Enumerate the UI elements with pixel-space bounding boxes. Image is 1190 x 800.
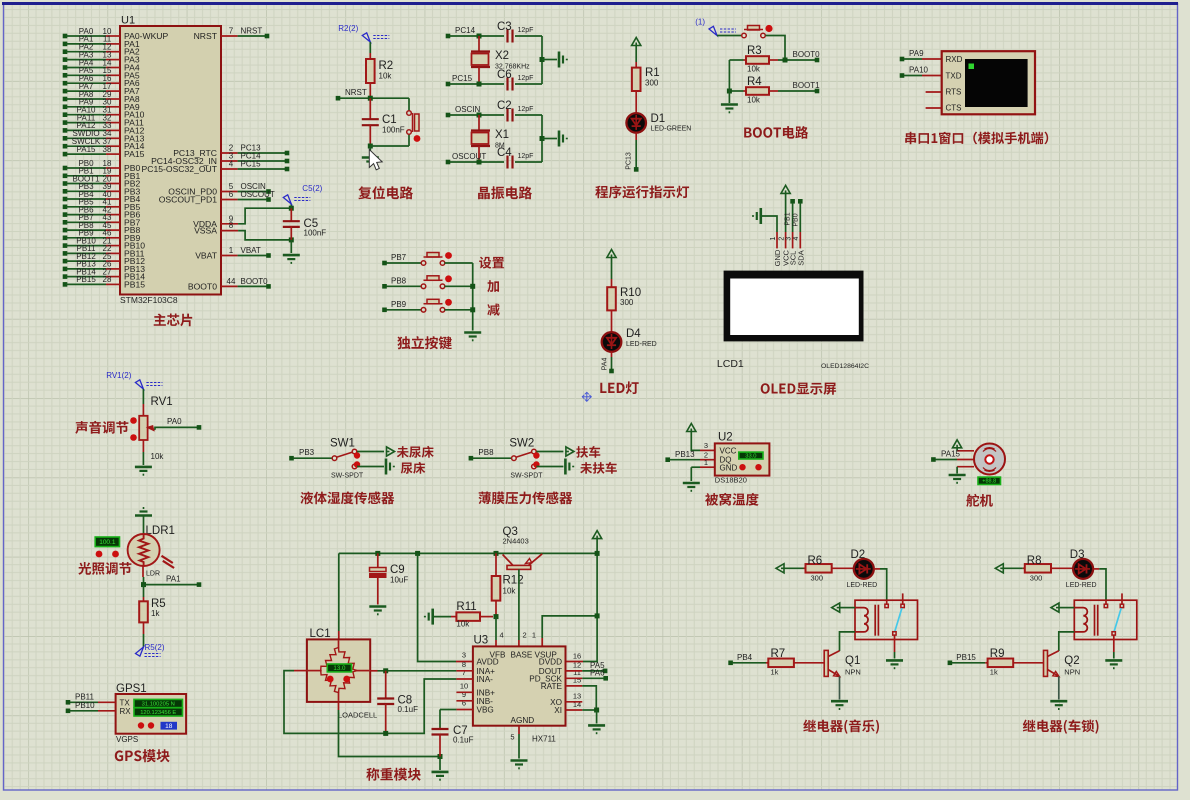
node PA9 — [900, 57, 905, 62]
wire DOUT to PA5 — [566, 670, 583, 672]
svg-text:R6: R6 — [808, 555, 823, 567]
coil bottom to transistor — [1059, 632, 1075, 651]
svg-text:SDA: SDA — [796, 250, 805, 265]
svg-text:PA9: PA9 — [909, 49, 924, 58]
node PB9 — [382, 308, 387, 313]
caption 继电器(车锁) — [1023, 720, 1099, 734]
svg-text:RV1: RV1 — [151, 396, 173, 408]
svg-text:300: 300 — [811, 574, 824, 583]
svg-text:PB8: PB8 — [391, 276, 407, 285]
node PA6 pin 16 — [63, 81, 68, 86]
svg-text:LCD1: LCD1 — [717, 358, 744, 370]
svg-text:RXD: RXD — [946, 55, 963, 64]
resistor R2 10k — [369, 53, 371, 59]
capacitor C5 100nF — [289, 206, 294, 211]
LC1 display — [327, 664, 351, 672]
svg-text:D4: D4 — [626, 328, 641, 340]
caption 主芯片 — [154, 314, 193, 327]
svg-text:10k: 10k — [456, 620, 470, 629]
caption 舵机 — [966, 494, 993, 507]
svg-text:1k: 1k — [990, 668, 998, 677]
wire left bus — [728, 60, 730, 103]
wire button to BOOT0 — [766, 36, 786, 61]
svg-text:5: 5 — [510, 733, 514, 742]
push button BOOT — [717, 35, 741, 37]
svg-text:9: 9 — [462, 690, 466, 699]
svg-text:PB3: PB3 — [299, 448, 315, 457]
ground (right) — [565, 459, 573, 475]
caption 声音调节 — [75, 421, 128, 434]
svg-text:LC1: LC1 — [310, 628, 331, 640]
wire PA1 — [142, 566, 144, 578]
svg-text:R8: R8 — [1027, 555, 1042, 567]
probe R2(2) — [362, 33, 370, 42]
ground — [369, 607, 386, 615]
wire rail down to LC1 — [338, 553, 340, 631]
node PB14 pin 27 — [63, 274, 68, 279]
svg-text:INA-: INA- — [477, 675, 494, 684]
node PB10 pin 21 — [63, 243, 68, 248]
servo display — [978, 477, 1001, 484]
LED D3 LED-RED — [1073, 559, 1093, 579]
power terminal — [632, 38, 641, 46]
pin CTS stub — [926, 107, 942, 109]
ground — [588, 725, 605, 733]
svg-text:PC13: PC13 — [626, 152, 633, 170]
svg-text:3: 3 — [785, 237, 792, 241]
svg-text:VBAT: VBAT — [241, 246, 261, 255]
node PA15 — [931, 457, 936, 462]
svg-text:Q2: Q2 — [1064, 655, 1079, 667]
resistor R5 1k — [143, 585, 145, 597]
power terminal — [781, 185, 790, 193]
node PA10 — [900, 73, 905, 78]
svg-text:12pF: 12pF — [518, 75, 534, 82]
node PB4 pin 40 — [63, 197, 68, 202]
resistor R1 300 — [635, 62, 637, 68]
switch SW1 SW-SPDT — [294, 457, 333, 459]
push button PB7 — [387, 262, 422, 264]
svg-text:1k: 1k — [151, 609, 160, 618]
power terminal + supply vertical — [593, 531, 602, 539]
node PB6 pin 42 — [63, 212, 68, 217]
node VBAT pin 1 — [221, 255, 238, 257]
svg-text:RV1(2): RV1(2) — [106, 371, 132, 380]
caption LED灯 — [600, 381, 638, 394]
ground — [511, 761, 528, 769]
node NRST — [336, 96, 341, 101]
wire to bus — [445, 285, 473, 287]
svg-text:R4: R4 — [747, 76, 762, 88]
node PB3 pin 39 — [63, 189, 68, 194]
svg-text:NPN: NPN — [1064, 668, 1080, 677]
svg-text:38: 38 — [103, 145, 112, 154]
svg-text:R2: R2 — [379, 60, 394, 72]
svg-text:LED-RED: LED-RED — [626, 341, 657, 348]
node PB7 pin 43 — [63, 220, 68, 225]
wire emitter to ground — [839, 676, 841, 699]
svg-text:R5(2): R5(2) — [145, 643, 165, 652]
svg-text:2: 2 — [778, 237, 785, 241]
origin marker — [582, 392, 591, 401]
svg-text:7: 7 — [229, 27, 234, 36]
svg-text:C1: C1 — [382, 114, 397, 126]
node PA0 — [197, 425, 202, 430]
svg-text:VCC: VCC — [720, 447, 737, 456]
wire LC1 bottom pin — [338, 702, 340, 710]
wire contact to ground — [1113, 635, 1115, 652]
node BOOT0 pin 44 — [221, 285, 238, 287]
svg-text:DVDD: DVDD — [539, 658, 562, 667]
svg-text:R3: R3 — [747, 45, 762, 57]
ground — [683, 483, 700, 491]
node PB1 pin 19 — [63, 174, 68, 179]
node PA9 pin 30 — [63, 105, 68, 110]
svg-text:2: 2 — [523, 631, 527, 640]
buttons — [96, 551, 103, 558]
LDR display — [95, 537, 119, 547]
node OSCIN — [446, 113, 451, 118]
wire throw1 to power — [357, 451, 384, 453]
wire XI to ground — [566, 709, 583, 711]
wire VDDA to C5 — [238, 208, 291, 224]
node PC14 — [446, 34, 451, 39]
wire throw2 to ground — [357, 466, 384, 468]
svg-text:BOOT0: BOOT0 — [241, 277, 269, 286]
svg-text:15: 15 — [573, 676, 581, 685]
ground — [949, 475, 966, 483]
svg-text:3: 3 — [462, 651, 466, 660]
node PA11 pin 32 — [63, 120, 68, 125]
ground — [831, 701, 848, 709]
svg-text:1k: 1k — [771, 668, 779, 677]
wire VCC pin — [785, 193, 787, 232]
wire bottom pin — [957, 466, 974, 468]
caption 扶车 — [576, 446, 600, 458]
svg-text:PB1: PB1 — [785, 212, 792, 225]
svg-text:VGPS: VGPS — [116, 735, 138, 744]
wire — [635, 46, 637, 63]
svg-text:VBAT: VBAT — [195, 251, 218, 261]
node PC13 pin 2 — [221, 152, 238, 154]
svg-text:D2: D2 — [851, 549, 866, 561]
node OSCOUT — [446, 160, 451, 165]
wire — [142, 389, 144, 404]
svg-text:VSSA: VSSA — [194, 226, 217, 236]
svg-text:PB15: PB15 — [956, 653, 976, 662]
svg-text:1: 1 — [770, 237, 777, 241]
svg-text:LED-GREEN: LED-GREEN — [651, 126, 692, 133]
node PB8 — [469, 456, 474, 461]
node SWDIO pin 34 — [63, 136, 68, 141]
resistor R10 300 — [611, 279, 613, 287]
caption 薄膜压力传感器 — [479, 492, 573, 505]
node PA10 pin 31 — [63, 112, 68, 117]
svg-text:U3: U3 — [474, 635, 489, 647]
svg-text:X1: X1 — [495, 129, 509, 141]
svg-text:PA10: PA10 — [909, 66, 929, 75]
wire R4 to BOOT1 — [778, 90, 816, 92]
wire PA4 — [611, 352, 613, 358]
svg-text:(1): (1) — [695, 18, 705, 27]
svg-text:300: 300 — [645, 79, 659, 88]
wire NRST net — [340, 97, 409, 99]
svg-text:U2: U2 — [718, 432, 733, 444]
wire C5 to ground — [290, 240, 292, 253]
node NRST pin 7 — [221, 35, 238, 37]
svg-text:BOOT1: BOOT1 — [793, 81, 821, 90]
push button PB8 — [387, 285, 422, 287]
node VSSA pin 8 — [221, 230, 238, 232]
svg-text:INB-: INB- — [477, 697, 494, 706]
ground — [559, 52, 567, 68]
svg-text:PA0: PA0 — [167, 417, 182, 426]
relay RL1 — [855, 600, 918, 639]
node PA3 pin 13 — [63, 57, 68, 62]
probe C5(2) — [290, 204, 292, 208]
node PB3 — [289, 456, 294, 461]
buttons — [138, 722, 144, 728]
wire VSUP pin 1 — [541, 638, 543, 646]
svg-text:1: 1 — [532, 631, 536, 640]
node PB15 pin 28 — [63, 282, 68, 287]
relay contacts — [886, 600, 888, 604]
node PB10 — [66, 709, 71, 714]
potentiometer RV1 10k — [142, 404, 144, 416]
svg-text:7: 7 — [462, 668, 466, 677]
svg-text:18: 18 — [165, 723, 173, 730]
wire to ground — [542, 59, 557, 61]
svg-text:LOADCELL: LOADCELL — [338, 711, 377, 720]
wire LC1 left pin to INA- — [294, 670, 307, 672]
ground — [1050, 701, 1067, 709]
svg-text:NRST: NRST — [194, 31, 218, 41]
svg-text:3: 3 — [704, 441, 708, 450]
resistor R6 300 — [784, 567, 804, 569]
svg-text:6: 6 — [229, 190, 234, 199]
capacitor C9 10uF — [375, 551, 380, 556]
svg-text:PA4: PA4 — [602, 358, 609, 371]
transistor Q1 NPN — [824, 650, 828, 676]
svg-text:C9: C9 — [390, 564, 405, 576]
wire throw2 to ground — [536, 466, 563, 468]
LCD1 OLED display — [724, 271, 864, 342]
svg-text:PB7: PB7 — [391, 253, 407, 262]
wire C1 bottom to button — [368, 144, 373, 149]
svg-text:BOOT0: BOOT0 — [188, 281, 217, 291]
svg-text:NRST: NRST — [345, 88, 367, 97]
caption 未扶车 — [580, 462, 617, 474]
svg-text:PB10: PB10 — [75, 701, 95, 710]
node BOOT1 pin 20 — [63, 181, 68, 186]
svg-text:CTS: CTS — [946, 104, 962, 113]
node PB9 pin 46 — [63, 236, 68, 241]
node PB13 pin 26 — [63, 267, 68, 272]
svg-text:LED-RED: LED-RED — [847, 582, 878, 589]
wire to bus — [445, 309, 473, 311]
svg-text:AVDD: AVDD — [477, 658, 499, 667]
svg-text:1: 1 — [229, 246, 234, 255]
svg-text:BOOT0: BOOT0 — [793, 50, 821, 59]
caption 液体湿度传感器 — [300, 491, 394, 504]
svg-text:OSCOUT: OSCOUT — [241, 190, 275, 199]
LED D2 LED-RED — [854, 559, 874, 579]
LED D4 LED-RED — [602, 332, 622, 352]
svg-text:NPN: NPN — [845, 668, 861, 677]
svg-text:PC14: PC14 — [455, 26, 476, 35]
svg-text:SW2: SW2 — [509, 438, 534, 450]
svg-text:13.0: 13.0 — [333, 665, 346, 672]
svg-text:TXD: TXD — [946, 72, 962, 81]
svg-text:SW-SPDT: SW-SPDT — [510, 473, 543, 480]
capacitor C1 100nF — [369, 98, 371, 119]
svg-text:U1: U1 — [121, 15, 135, 27]
relay RL2 — [1074, 600, 1137, 639]
node PC15 pin 4 — [221, 168, 238, 170]
node PA4 — [609, 369, 614, 374]
caption 加 — [487, 280, 499, 292]
svg-text:0.1uF: 0.1uF — [453, 736, 474, 745]
power terminal — [776, 564, 784, 573]
svg-text:DS18B20: DS18B20 — [715, 476, 747, 485]
light arrows — [162, 556, 175, 568]
caption BOOT电路 — [744, 126, 808, 139]
wire RATE — [566, 685, 583, 687]
svg-text:AGND: AGND — [511, 716, 535, 725]
GPS displays — [134, 699, 183, 707]
probe (1) — [709, 26, 717, 35]
wire throw1 to power — [536, 451, 563, 453]
coil feed power arrow — [832, 603, 840, 612]
caption 晶振电路 — [478, 186, 532, 199]
svg-text:12pF: 12pF — [518, 27, 534, 34]
svg-text:HX711: HX711 — [532, 735, 556, 744]
bridge resistors — [321, 648, 339, 671]
pin INB- stub — [456, 700, 473, 702]
node PA12 pin 33 — [63, 128, 68, 133]
coil bottom to transistor — [840, 632, 856, 651]
ground — [1105, 660, 1122, 668]
svg-text:16: 16 — [573, 651, 581, 660]
probe R5(2) — [136, 647, 144, 656]
svg-text:10uF: 10uF — [390, 576, 408, 585]
node BOOT1 — [815, 89, 820, 94]
wire to ground — [142, 440, 144, 452]
resistor R4 10k — [729, 90, 743, 92]
svg-text:C2: C2 — [497, 100, 512, 112]
caption 串口1窗口（模拟手机端） — [905, 132, 1048, 145]
ground — [135, 467, 152, 475]
wire PC13 — [635, 132, 637, 140]
svg-text:VBG: VBG — [477, 706, 494, 715]
svg-text:4: 4 — [793, 237, 800, 241]
wire VSSA to C5 bottom — [238, 231, 291, 240]
svg-text:31.100205 N: 31.100205 N — [142, 702, 175, 708]
svg-text:PB0: PB0 — [792, 213, 799, 226]
svg-text:4: 4 — [229, 160, 234, 169]
svg-text:PB8: PB8 — [478, 448, 494, 457]
svg-text:100.1: 100.1 — [99, 539, 116, 546]
svg-text:4: 4 — [500, 631, 504, 640]
svg-text:10k: 10k — [379, 72, 393, 81]
caption 继电器(音乐) — [803, 720, 879, 734]
wire PA0 — [155, 427, 198, 429]
svg-text:SW-SPDT: SW-SPDT — [331, 473, 364, 480]
node PA15 pin 38 — [63, 152, 68, 157]
probe RV1(2) — [135, 380, 143, 389]
caption 设置 — [479, 257, 504, 269]
wire PD_SCK to PA6 — [566, 677, 583, 679]
ground — [432, 772, 449, 780]
svg-text:PB4: PB4 — [737, 653, 753, 662]
node PB0 pin 18 — [63, 166, 68, 171]
resistor R11 10k + ground left — [425, 609, 433, 625]
caption 程序运行指示灯 — [595, 185, 689, 198]
node PC14 pin 3 — [221, 160, 238, 162]
caption 称重模块 — [366, 768, 421, 781]
node PA8 pin 29 — [63, 97, 68, 102]
svg-text:STM32F103C8: STM32F103C8 — [120, 295, 178, 305]
svg-text:LDR: LDR — [146, 571, 160, 578]
ground — [369, 146, 371, 156]
ground — [559, 131, 567, 147]
svg-text:120.123456 E: 120.123456 E — [140, 710, 176, 716]
svg-text:D1: D1 — [651, 113, 666, 125]
resistor R12 10k — [495, 553, 497, 576]
wire — [143, 516, 145, 535]
servo motor — [974, 444, 1005, 475]
node VDDA pin 9 — [221, 223, 238, 225]
svg-text:PC15: PC15 — [452, 74, 473, 83]
coil feed power arrow — [1051, 603, 1059, 612]
wire GND — [691, 466, 700, 468]
svg-text:PB9: PB9 — [391, 300, 407, 309]
node PA4 pin 14 — [63, 65, 68, 70]
wire top pin — [956, 448, 958, 451]
wire to ground — [542, 138, 557, 140]
svg-text:R7: R7 — [771, 648, 786, 660]
svg-text:RX: RX — [120, 707, 132, 716]
wire VBG — [456, 709, 473, 711]
transistor Q2 NPN — [1044, 650, 1048, 676]
caption 光照调节 — [78, 562, 131, 575]
svg-text:100nF: 100nF — [382, 126, 405, 135]
svg-text:XI: XI — [554, 706, 562, 715]
node PB15 — [948, 661, 953, 666]
node PB5 pin 41 — [63, 205, 68, 210]
node PB1 (SCL) — [790, 199, 795, 204]
svg-text:C3: C3 — [497, 21, 512, 33]
node PA7 pin 17 — [63, 89, 68, 94]
svg-text:12pF: 12pF — [518, 153, 534, 160]
node SWCLK pin 37 — [63, 144, 68, 149]
ground (left) — [753, 208, 761, 224]
wire contact to ground — [894, 635, 896, 652]
pin XO stub — [566, 701, 583, 703]
mouse cursor — [369, 150, 382, 170]
node OSCIN pin 5 — [221, 191, 238, 193]
power terminal — [953, 440, 962, 448]
buttons — [327, 676, 334, 683]
capacitor C3 12pF — [506, 30, 508, 43]
node PB12 pin 25 — [63, 259, 68, 264]
caption 尿床 — [401, 462, 426, 474]
node PB4 — [728, 661, 733, 666]
pin INB+ stub — [456, 691, 473, 693]
wire right vertical — [541, 36, 543, 84]
node PA5 pin 15 — [63, 73, 68, 78]
svg-text:300: 300 — [620, 298, 634, 307]
